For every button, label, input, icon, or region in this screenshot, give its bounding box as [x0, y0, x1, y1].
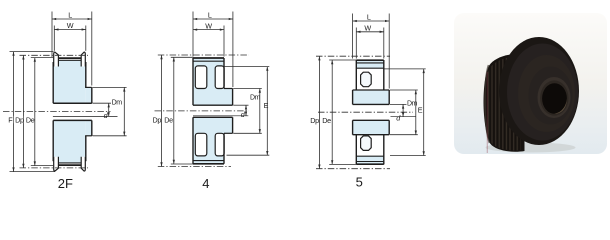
dimension d pulley 5 [390, 104, 416, 116]
pulley 5 tooth tip lines bottom [356, 162, 384, 165]
svg-text:F: F [8, 115, 13, 124]
dimension Dm pulley 4 [233, 89, 261, 134]
pulley 5 tooth tip lines top [356, 60, 384, 63]
pulley 4 bore opening [192, 106, 233, 117]
photo pulley teeth stripes [485, 57, 521, 150]
pulley 4 web recess bottom-left [195, 133, 207, 156]
pulley 2F bore opening [52, 104, 93, 120]
pulley 5 web recess bottom [356, 134, 384, 156]
dimension W pulley 4 [193, 26, 224, 57]
pulley 4 tooth tip lines bottom [193, 161, 224, 164]
pulley 4 face outlines [193, 58, 224, 164]
svg-text:5: 5 [356, 175, 363, 190]
pulley 5 web boss top [361, 72, 372, 87]
dimension L pulley 5 [353, 14, 390, 89]
svg-text:L: L [68, 10, 72, 19]
photo pulley group open [484, 37, 580, 153]
svg-text:Dp: Dp [153, 115, 162, 124]
svg-text:d: d [241, 110, 246, 119]
svg-text:2F: 2F [58, 176, 73, 191]
dimension Dp pulley 2F [20, 55, 89, 168]
photo pulley shadow [486, 143, 576, 153]
svg-text:L: L [208, 10, 212, 19]
label L pulley 5 [367, 12, 371, 21]
label 2F [58, 176, 73, 191]
svg-text:W: W [67, 21, 74, 30]
label Dp pulley 5 [310, 116, 319, 125]
svg-text:4: 4 [202, 176, 209, 191]
label W pulley 5 [364, 24, 371, 33]
pulley 4 web recess bottom-right [215, 133, 224, 156]
label L pulley 2F [68, 10, 72, 19]
dimension De pulley 5 [329, 60, 356, 164]
pulley 2F face outlines [53, 62, 86, 161]
pulley 5 bore lines [353, 104, 390, 120]
dimension d pulley 4 [233, 105, 248, 116]
svg-text:E: E [418, 106, 423, 115]
svg-text:De: De [164, 115, 173, 124]
svg-text:Dp: Dp [310, 116, 319, 125]
pulley 2F tooth tip lines top [58, 58, 81, 60]
pulley 5 web boss bottom [361, 136, 372, 151]
label F pulley 2F [8, 115, 14, 124]
label E pulley 4 [264, 101, 269, 110]
pulley 2F bore lines [53, 103, 118, 120]
label De pulley 4 [164, 115, 173, 124]
photo pulley toothed drum [484, 54, 525, 152]
label Dm pulley 2F [112, 99, 123, 106]
svg-text:W: W [205, 21, 212, 30]
dimension L pulley 2F [52, 12, 92, 86]
dimension E pulley 5 [385, 69, 426, 156]
label d pulley 2F [104, 111, 109, 120]
photo pulley flange disc [499, 37, 579, 145]
svg-text:d: d [396, 114, 401, 123]
svg-text:E: E [264, 101, 269, 110]
photo pulley flange face [518, 55, 575, 132]
svg-text:Dm: Dm [112, 99, 123, 106]
label E pulley 5 [418, 106, 423, 115]
pulley 2F centerline [3, 111, 111, 113]
svg-text:Dp: Dp [15, 115, 24, 124]
pulley 4 web recess top-right [215, 66, 224, 89]
pulley 4 body section fill [193, 58, 233, 164]
pulley 4 tooth tip lines top [193, 58, 224, 61]
dimension W pulley 2F [54, 26, 86, 51]
pulley 4 bore lines [193, 105, 248, 117]
dimension L pulley 4 [193, 12, 233, 88]
dimension Dm pulley 5 [390, 90, 418, 135]
svg-text:Dm: Dm [407, 100, 418, 107]
photo red scan artifact [487, 72, 488, 153]
pulley 2F tooth tip lines bottom [58, 163, 81, 165]
label Dp pulley 4 [152, 115, 161, 124]
label d pulley 4 [241, 110, 246, 119]
photo pulley bore [542, 83, 567, 114]
dimension F pulley 2F [10, 52, 56, 172]
pulley 2F flange bottom-left [54, 157, 59, 171]
dimension De pulley 2F [31, 58, 53, 166]
pulley 5 centerline [318, 111, 413, 113]
label d pulley 5 [396, 114, 401, 123]
dimension Dp pulley 4 [158, 55, 249, 167]
dimension W pulley 5 [356, 28, 384, 59]
label De pulley 5 [322, 116, 331, 125]
pulley 2F flange top-left [54, 52, 59, 66]
label Dp pulley 2F [15, 115, 24, 124]
pulley 2F flange top-right [81, 52, 85, 66]
dimension De pulley 4 [171, 57, 193, 164]
svg-text:Dm: Dm [250, 95, 261, 102]
label L pulley 4 [208, 10, 212, 19]
label 5 [356, 175, 363, 190]
label W pulley 4 [205, 21, 212, 30]
pulley 2F hub outline [85, 87, 92, 135]
pulley 5 bore opening [352, 105, 390, 120]
pulley 2F flange bottom-right [81, 157, 85, 171]
pulley 5 body section fill [353, 60, 390, 164]
svg-text:De: De [322, 116, 331, 125]
photo panel background [454, 13, 607, 154]
label W pulley 2F [67, 21, 74, 30]
pulley 5 face outlines [356, 60, 384, 164]
svg-text:De: De [26, 115, 35, 124]
pulley 5 hub outline [353, 90, 390, 135]
dimension d pulley 2F [93, 103, 112, 116]
svg-text:L: L [367, 12, 371, 21]
dimension E pulley 4 [224, 67, 269, 156]
label De pulley 2F [26, 115, 35, 124]
label Dm pulley 5 [407, 100, 418, 107]
pulley 4 hub outline [224, 89, 233, 134]
label Dm pulley 4 [250, 95, 261, 102]
dimension Dp pulley 5 [316, 56, 390, 169]
pulley 4 web recess top-left [195, 66, 207, 89]
pulley 2F body section fill [53, 60, 92, 163]
label 4 [202, 176, 209, 191]
pulley 5 web recess top [356, 68, 384, 90]
photo pulley far flange edge [485, 65, 490, 143]
pulley 4 centerline [155, 110, 250, 112]
dimension Dm pulley 2F [93, 87, 127, 135]
svg-text:W: W [364, 24, 371, 33]
photo pulley hub boss [538, 77, 571, 118]
